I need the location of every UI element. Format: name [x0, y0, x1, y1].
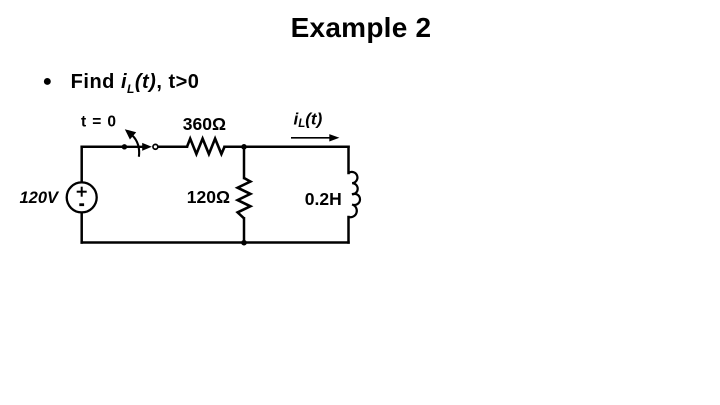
wire right vertical upper: [347, 147, 350, 173]
wire right vertical lower: [347, 217, 350, 243]
title: [1, 12, 720, 44]
current arrow shaft: [291, 137, 332, 139]
wire middle branch upper: [243, 147, 246, 178]
voltage source minus sign: [79, 203, 84, 206]
switch open terminal circle: [153, 144, 158, 149]
node B junction dot (top middle): [241, 144, 247, 150]
voltage source V1 circle: [67, 182, 97, 212]
switch throw wire: [124, 146, 144, 148]
wire switch to resistor: [158, 146, 187, 149]
wire top-left horizontal: [82, 146, 125, 149]
wire left vertical upper: [80, 147, 83, 183]
svg-text:t = 0: t = 0: [81, 114, 117, 131]
resistor R1 360 ohm zigzag: [187, 139, 225, 154]
inductor L1 0.2H coil: [349, 172, 361, 217]
node A junction dot (switch input): [122, 144, 127, 149]
svg-text:iL(t): iL(t): [294, 110, 323, 131]
switch opening blade arc: [132, 135, 139, 156]
voltage source plus sign: [77, 187, 87, 197]
current arrow iL(t): [291, 134, 339, 141]
current arrow head: [329, 134, 339, 141]
svg-text:120Ω: 120Ω: [187, 187, 230, 207]
node C junction dot (bottom middle): [241, 240, 247, 246]
switch opening arrowhead: [125, 129, 136, 139]
bullet: Find iL(t), t>0: [43, 71, 200, 96]
wire left vertical lower: [80, 213, 83, 243]
svg-text:360Ω: 360Ω: [183, 114, 226, 134]
switch SW1 (opening at t=0): [124, 129, 151, 157]
wire bottom horizontal: [82, 241, 349, 244]
switch throw arrowhead: [142, 143, 152, 151]
wire middle branch lower: [243, 218, 246, 242]
svg-text:0.2H: 0.2H: [305, 189, 342, 209]
svg-text:120V: 120V: [20, 189, 61, 207]
resistor R2 120 ohm zigzag (vertical): [238, 178, 251, 218]
wire resistor to top-right corner: [225, 146, 349, 149]
